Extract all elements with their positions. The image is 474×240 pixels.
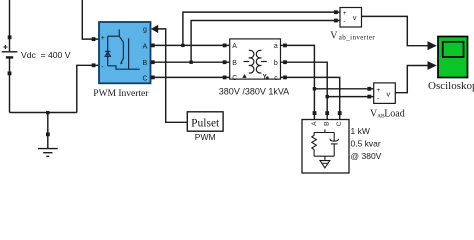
svg-text:ab_inverter: ab_inverter (339, 33, 376, 41)
PWM Inverter block (99, 22, 151, 83)
diode D1 triangle (105, 52, 110, 57)
wire A inverter to transformer (151, 44, 230, 46)
svg-text:B: B (324, 122, 331, 126)
svg-text:V: V (330, 30, 338, 41)
svg-text:PWM: PWM (195, 132, 216, 142)
svg-text:g: g (143, 26, 147, 33)
oscilloscope block (438, 37, 468, 78)
transistor Q1 gate bar (128, 38, 130, 69)
transistor Q1 collector diagonal (119, 36, 123, 42)
wire below battery to bottom rail (9, 58, 11, 113)
load icon ground stem (324, 156, 326, 160)
wire C inverter to transformer (151, 76, 230, 78)
svg-text:b: b (274, 60, 278, 67)
oscilloscope screen (443, 42, 464, 57)
svg-text:B: B (143, 60, 148, 67)
load icon top stub (324, 129, 326, 132)
load icon ground triangle (320, 161, 330, 168)
port squares transformer inputs (223, 44, 227, 48)
svg-text:+: + (376, 87, 380, 94)
node junction tap b (326, 95, 329, 98)
port squares voltmeter1 inputs (334, 10, 338, 14)
Pulset block (187, 112, 223, 131)
svg-text:Pulset: Pulset (191, 117, 220, 129)
scope input arrow 2 (428, 61, 437, 70)
voltmeter U2 V_AB Load block (374, 83, 396, 104)
svg-text:C: C (336, 121, 343, 126)
svg-text:0.5 kvar: 0.5 kvar (351, 139, 381, 149)
svg-text:v: v (386, 89, 390, 98)
svg-text:@ 380V: @ 380V (351, 151, 382, 161)
port squares load inputs (313, 111, 317, 115)
wire stubs into load (314, 114, 339, 120)
svg-text:+: + (343, 10, 347, 17)
svg-text:Osciloskop: Osciloskop (428, 80, 474, 92)
igbt bottom rail with jog (108, 66, 140, 69)
node junction wire A tap (181, 44, 184, 47)
port square inverter plus (92, 37, 96, 41)
wire right rail up to inverter minus (77, 65, 99, 112)
wire ground stem (47, 113, 49, 149)
port squares voltmeter2 inputs (367, 87, 371, 91)
wire g to Pulset (158, 29, 187, 122)
load block three-phase RLC (302, 120, 349, 174)
DC source Vdc battery symbol (2, 52, 18, 58)
wire voltmeter1 to scope input1 (362, 16, 428, 45)
wire tap b to load voltmeter minus (327, 96, 374, 98)
voltmeter U1 V_ab_inverter block (340, 8, 362, 28)
capacitor C branch (333, 133, 335, 141)
resistor R zigzag (312, 133, 317, 157)
transistor Q1 emitter arrowhead (120, 62, 123, 65)
svg-text:B: B (232, 60, 237, 67)
port square ground (46, 132, 50, 136)
port squares transformer outputs (283, 44, 287, 48)
plus sign of DC source (3, 45, 7, 49)
svg-text:A: A (143, 43, 148, 50)
transformer T1 block (230, 39, 281, 79)
svg-text:A: A (311, 121, 318, 126)
port squares inverter outputs (151, 44, 155, 48)
wire from DC source plus terminal up off-screen (9, 0, 11, 51)
svg-text:Load: Load (384, 108, 405, 119)
transistor Q1 body bar (122, 42, 124, 59)
scope input arrow 1 (428, 41, 437, 50)
load icon top rail (314, 132, 334, 134)
svg-text:1 kW: 1 kW (351, 126, 370, 136)
wire c (281, 77, 340, 113)
bottom rail wire (10, 112, 77, 114)
node junction bottom rail (46, 111, 49, 114)
svg-text:v: v (353, 13, 357, 22)
winding icon right coil (256, 50, 261, 73)
wire tap a to load voltmeter plus (314, 88, 373, 90)
delta winding symbol (242, 74, 246, 78)
svg-text:C: C (232, 75, 237, 82)
svg-text:+: + (101, 35, 105, 42)
port square inverter minus (92, 63, 96, 67)
svg-text:380V /380V 1kVA: 380V /380V 1kVA (219, 86, 289, 96)
svg-text:PWM Inverter: PWM Inverter (93, 89, 149, 99)
svg-text:a: a (274, 43, 278, 50)
igbt icon left vertical (107, 36, 109, 66)
diode D1 cathode bar (105, 50, 111, 52)
winding icon left coil (244, 50, 267, 73)
wire from top off-screen down to inverter plus (82, 0, 99, 39)
port square battery top (8, 35, 12, 39)
load icon bottom rail (314, 155, 334, 157)
svg-text:c: c (274, 75, 278, 82)
wire B inverter to transformer (151, 61, 230, 63)
svg-text:C: C (143, 75, 148, 82)
transistor Q1 emitter diagonal (121, 58, 124, 63)
wire tap A up to voltmeter plus (183, 12, 340, 45)
svg-text:-: - (377, 95, 379, 102)
ground symbol (38, 149, 58, 157)
wire b (281, 62, 328, 113)
node junction tap a (313, 87, 316, 90)
svg-text:Vdc = 400 V: Vdc = 400 V (21, 50, 71, 60)
wire tap B up to voltmeter minus (191, 21, 340, 63)
svg-text:A: A (232, 43, 237, 50)
node junction wire B tap (189, 61, 192, 64)
port square battery bottom (8, 72, 12, 76)
igbt icon top rail (108, 35, 120, 37)
input arrow g (151, 25, 158, 33)
wire voltmeter2 to scope input2 (395, 66, 427, 93)
svg-text:-: - (343, 19, 345, 26)
igbt icon top stub (118, 29, 120, 36)
wire a (281, 45, 315, 113)
